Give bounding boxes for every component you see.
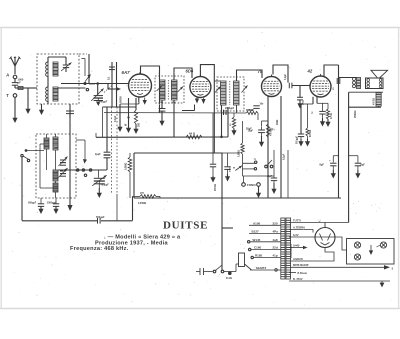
IFT1 core (dashed) [167,80,169,100]
svg-text:+: + [329,159,331,163]
electrolytic 8uF (AF) [273,150,275,178]
75 cathode vertical [267,97,269,199]
pickup switch contacts [243,162,255,164]
cathode resistor 300 ohm [135,98,137,110]
svg-text:0,5MΩ: 0,5MΩ [238,150,240,157]
series capacitor 2000uuF [223,110,225,115]
svg-text:FONO: FONO [247,183,256,187]
svg-text:0,5MΩ: 0,5MΩ [246,109,253,112]
svg-text:1500Ω: 1500Ω [215,184,217,191]
svg-text:50000: 50000 [120,96,123,103]
wire tone return vertical [338,65,340,198]
svg-text:460µµF: 460µµF [101,183,110,186]
42 screen capacitor 500uuF [312,97,314,104]
arrow under 6A7 [144,98,146,101]
ground (antenna network) [27,98,29,109]
oscillator trimmer 2 [60,170,66,172]
IFT1 primary winding [160,80,166,100]
wire coil bottom to ground [47,101,49,104]
ground (C1) [96,102,101,107]
svg-text:R185: R185 [255,254,263,258]
antenna coil secondary winding (core) [53,87,58,101]
wire 42 anode to output transformer [339,77,357,79]
page border frame [0,27,400,29]
B+ arrow line [291,266,384,268]
oscillator trimmer 1 [60,159,66,161]
ground (bottom line) [381,281,383,283]
svg-text:6A7: 6A7 [122,70,131,75]
variable capacitor C1 440pF (RF tuning) [97,84,99,96]
speaker voice coil [366,78,384,89]
mains plug [196,271,200,273]
svg-text:2µµF: 2µµF [95,153,101,156]
svg-text:B127: B127 [252,230,260,234]
svg-text:pF: pF [18,80,22,84]
terminal D [228,272,231,275]
capacitor (AF coupling) [212,153,214,164]
ground (42 grid) [299,100,301,104]
svg-text:75: 75 [258,69,263,74]
capacitor on oscillator line [69,104,71,111]
svg-text:500µµF: 500µµF [28,202,37,205]
field coil 4000 ohm [376,93,381,106]
svg-text:W145: W145 [253,238,261,242]
svg-text:A.TERRA: A.TERRA [293,225,305,229]
svg-text:300: 300 [138,122,141,127]
band switch S1 [84,82,86,84]
ground (6A7 cathode 3) [135,124,137,129]
AVC takeoff wire [107,84,109,90]
arrow (osc grid return) [67,205,72,211]
selector switch body [239,253,245,267]
padder capacitor 2000pF [106,107,108,152]
ground (osc gang) [98,188,100,193]
capacitor 1000pF (antenna series) [14,79,16,82]
svg-text:41p: 41p [273,254,278,258]
ground (6A7 cathode 2) [128,112,130,128]
scan speckle noise [4,29,395,306]
IFT2 primary bottom lead [221,105,223,137]
mains switch [213,270,216,273]
IFT1 secondary winding [172,80,178,100]
6D6 screen arrow [203,97,205,100]
wire switch stub [86,83,96,85]
svg-text:. — Modelli « Siera 429 » a: . — Modelli « Siera 429 » a [104,234,181,240]
IFT1 trimmer arrows [157,86,163,92]
wire AF return vertical [280,96,282,198]
svg-text:8I8T8 6IA18P: 8I8T8 6IA18P [293,264,309,267]
heater return wire [310,247,334,261]
IFT2 primary winding [221,81,227,105]
wire junction to ground [27,88,29,98]
oscillator coil winding 3 [53,170,58,181]
svg-text:2500Ω: 2500Ω [354,110,357,118]
svg-text:Frequenza: 468 kHz.: Frequenza: 468 kHz. [70,246,129,252]
oscillator grid line [69,110,71,118]
feedback line 500pF [22,220,97,222]
tube 6A7 (converter) [129,74,152,97]
antenna coil secondary L2 [47,87,49,101]
antenna coil primary L1 [47,62,49,76]
capacitor 3300uuF [55,198,57,203]
tube 75 (detector first AF) [262,77,282,97]
wire fono [243,176,245,183]
antenna coil shield box (dashed) [37,54,79,104]
output transformer [357,78,361,89]
wire switch drop [221,153,223,270]
ground (screen dropper) [307,139,309,142]
capacitor 500uuF [40,198,42,203]
svg-text:220: 220 [273,221,278,225]
ground (42 cathode C) [322,118,324,122]
cathode bias resistor R (6A7) [128,98,130,112]
wire antenna coil top [47,57,49,62]
svg-text:DUITSE: DUITSE [163,220,208,232]
lamp arrow [370,245,372,251]
grid-cap jumper 42 [324,65,339,76]
svg-text:B. 4TUV: B. 4TUV [293,278,303,281]
ground (42 cathode R) [327,119,329,122]
speaker cone [371,70,388,78]
resistor 0.5 Mohm (AVC) [129,153,131,157]
ground (osc 1) [40,206,42,209]
oscillator coil winding 2 [53,137,58,150]
wire pot feed [213,152,240,154]
feedback left drop [21,157,23,221]
dial lamp 1 [354,242,360,248]
oscillator coil winding 1 [44,138,49,149]
wire to osc gang [98,170,100,178]
svg-text:64 Ω: 64 Ω [189,131,196,135]
terminal FONO [242,183,246,187]
oscillator output wire [58,169,107,171]
wire under speaker [349,91,383,93]
svg-text:A3AIC8: A3AIC8 [293,257,303,261]
svg-text:22d: 22d [273,246,278,250]
svg-text:D-Oh: D-Oh [226,277,233,280]
secondary tap A445 [289,247,303,249]
IFT2 secondary bottom lead [236,105,238,113]
svg-text:3300µµF: 3300µµF [47,202,57,205]
tube 42 (output) [310,76,331,97]
ground (coil box left) [41,104,43,110]
oscillator coil winding 4 [53,183,58,192]
AVC resistor network vertical 2 [116,62,118,107]
mains wire [224,271,236,273]
svg-text:2000µµF: 2000µµF [225,108,235,110]
svg-text:500µµF: 500µµF [96,216,105,219]
svg-text:B Bouw: B Bouw [298,272,307,275]
IFT1 secondary top jumper [174,68,192,80]
screen supply bus [96,136,228,138]
IFT1 return bracket [182,110,195,112]
IFT2 secondary top jumper [237,70,263,81]
secondary tap TUTTI [289,222,349,224]
trimmer capacitor (antenna) [65,58,67,65]
power transformer secondary [286,218,291,279]
ground (filter 2) [357,170,359,174]
ground (osc 2) [55,206,57,209]
svg-text:0,1µF: 0,1µF [114,115,117,122]
osc box internal wires [46,134,48,138]
svg-text:4µF+: 4µF+ [269,129,275,132]
anode jumper 6D6 to IFT2 [200,65,214,153]
ground (8uF AF) [273,183,275,189]
svg-text:470Ω: 470Ω [330,113,333,119]
resistor 64 ohm [186,135,202,139]
IFT2 secondary trimmer [242,86,248,93]
svg-text:8µF: 8µF [320,163,325,166]
AVC resistor network vertical 1 [111,62,113,107]
wire AF bus drop left [133,153,135,198]
lamp feed wire [308,237,348,250]
svg-text:1MΩ: 1MΩ [276,120,279,125]
AF bus [134,152,223,154]
secondary tap 6.3V [289,236,307,238]
tube 6D6 (IF amplifier) [190,77,211,98]
svg-text:6D6: 6D6 [186,69,194,74]
oscillator coil box (dashed) [36,134,76,198]
svg-text:C160: C160 [254,246,262,250]
wire bus drop [227,107,229,137]
svg-text:TUTTI: TUTTI [293,218,301,222]
svg-text:4a8: 4a8 [273,238,278,242]
IFT1 secondary bottom lead [173,100,175,137]
wire grid line to mixer [61,83,130,85]
IFT2 secondary winding [234,81,240,105]
tone capacitor (42 anode) [336,78,338,84]
ground (diode load) [233,129,235,131]
wire coil link [47,76,49,87]
IFT2 core (dashed) [229,81,231,105]
electrolytic 10uF (75 cathode) [262,120,269,122]
capacitor 4.5uF (75 cathode) [253,105,259,107]
42 cathode network [316,97,318,104]
bottom heater line [289,280,390,282]
svg-text:4000Ω: 4000Ω [373,98,376,105]
dial lamp 3 [380,242,386,248]
6D6 cathode arrow [196,97,198,99]
dial lamp 2 [354,254,360,260]
wire to 42 grid [292,85,310,87]
wire B+ feed vertical [287,150,289,198]
svg-text:42: 42 [307,69,313,74]
IF transformer 2 box (dotted) [217,77,244,111]
IFT1 primary bottom lead [161,100,163,108]
power transformer primary [281,218,285,279]
grid capacitor (42) [299,86,301,98]
ground (IFT1) [161,114,163,121]
volume potentiometer 0.5 Mohm [242,121,244,143]
oscillator grid line down [69,118,71,205]
ground (AF cap) [212,176,214,178]
svg-text:0,5MΩ: 0,5MΩ [125,163,128,170]
ground (42 screen) [300,139,302,142]
antenna coupling element Cms [15,87,18,89]
svg-text:0,1µF: 0,1µF [283,153,286,160]
coupling capacitor [288,83,290,89]
grid wire into 6A7 [125,83,130,85]
diode load line [104,112,246,114]
wire secondary out [58,87,86,89]
ground (75 cathode) [261,136,263,142]
ground (terminal T) [14,97,16,100]
switch (pickup selector) [265,165,268,168]
ground (FONO) [258,187,260,194]
antenna coil primary winding (core) [53,62,58,76]
bus wire (AVC/ground) [103,106,137,108]
svg-text:4Pa: 4Pa [273,230,279,234]
IF transformer 1 box (dotted) [155,76,184,103]
secondary tap heater [289,260,310,262]
chassis bus [134,197,341,199]
wave-band switch contact [27,150,44,152]
resistor 0.05 Mohm stub [133,195,141,197]
svg-text:6,3V: 6,3V [293,233,299,237]
svg-text:0,1µF: 0,1µF [285,73,287,80]
IFT2 trimmer arrow left [215,87,221,93]
anode jumper 6A7 to IFT1 [141,66,160,113]
svg-text:8000Ω: 8000Ω [310,130,312,137]
svg-text:A100: A100 [253,221,261,225]
wire pot bottom [243,175,275,177]
B tone line [289,272,296,274]
svg-text:440µµF: 440µµF [99,101,108,104]
capacitor (IFT1 bypass) [159,108,166,110]
gang link (dashed) [111,107,113,194]
svg-text:5000: 5000 [230,166,232,172]
svg-text:A: A [6,73,9,78]
ground (5000pF) [227,174,229,177]
svg-text:T: T [6,93,9,98]
svg-text:8µF: 8µF [361,163,366,166]
diode load resistor [233,113,235,117]
B+ vertical line [348,92,350,222]
antenna symbol [14,66,16,74]
electrolytic 8uF filter 1 [333,155,338,157]
variable capacitor C2 (oscillator tuning) [94,177,105,179]
AVC line 1 [88,54,90,84]
wire screen dropper [307,104,309,128]
feedback risers [116,194,118,221]
rectifier tube 80 [315,228,335,248]
cathode lead 1 [138,97,140,104]
svg-text:1TF: 1TF [140,193,145,195]
anode jumper 75 to coupling cap [273,65,288,82]
svg-text:A445: A445 [293,243,300,247]
wire field coil to B+ line [349,106,381,108]
secondary tap A.TERRA [289,230,313,233]
electrolytic 8uF filter 2 [349,155,358,157]
svg-text:0,05MΩ: 0,05MΩ [138,203,146,205]
dial lamp box [347,239,395,265]
ground (6A7 cathode 1) [119,120,121,127]
svg-text:20µF: 20µF [246,128,252,131]
capacitor 5000pF (tone) [227,153,229,166]
ground (filter 1) [332,170,334,174]
band switch S2 [77,169,79,171]
svg-text:500µµF: 500µµF [296,136,298,144]
